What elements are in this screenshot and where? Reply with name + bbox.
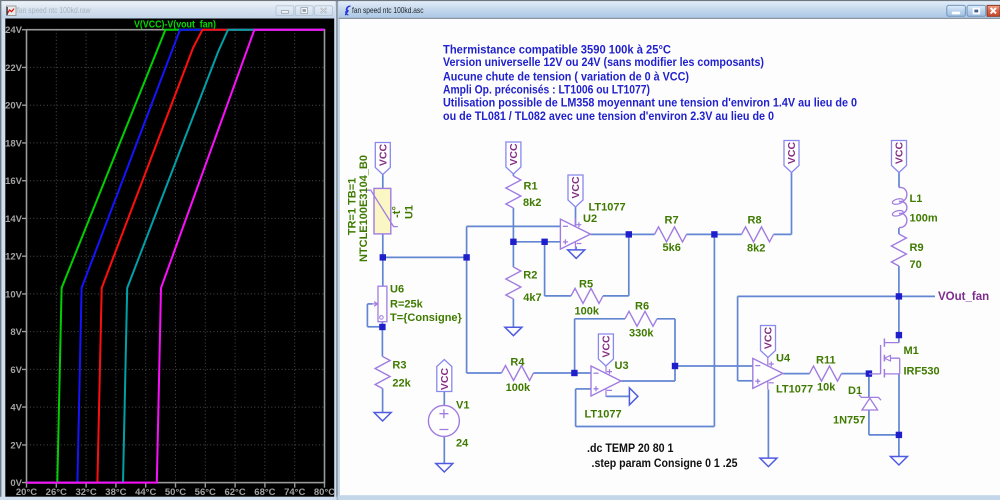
net label VOut_fan — [938, 291, 989, 303]
svg-text:70: 70 — [910, 259, 922, 271]
VCC flag above U3 — [598, 334, 613, 366]
wire R1 bottom to node — [512, 208, 514, 242]
svg-text:8V: 8V — [10, 327, 22, 338]
inductor L1 100m — [892, 187, 907, 227]
wire node up to R6 — [574, 319, 576, 373]
svg-text:20°C: 20°C — [16, 487, 37, 498]
resistor R7 5k6 — [655, 227, 687, 242]
V1 labels — [456, 400, 469, 450]
wire VOut node to M1 drain — [898, 296, 900, 342]
junction U3 inv node — [571, 370, 577, 376]
R9 labels — [910, 242, 924, 271]
svg-text:10V: 10V — [5, 289, 23, 300]
junction R7-R8 — [711, 231, 717, 237]
svg-text:22V: 22V — [5, 63, 23, 74]
VCC flag above U4 — [761, 326, 776, 358]
ground below U4 — [760, 458, 777, 467]
svg-text:8k2: 8k2 — [523, 197, 541, 209]
MOSFET M1 IRF530 — [869, 339, 900, 378]
R6 labels — [629, 301, 654, 340]
svg-text:TR=1 TB=1: TR=1 TB=1 — [347, 178, 359, 235]
wire R6 right — [657, 318, 675, 320]
wire VCC to U1 top — [382, 175, 384, 189]
R11 labels — [816, 355, 836, 394]
svg-text:26°C: 26°C — [46, 487, 67, 498]
R1 labels — [523, 181, 541, 210]
voltage source V1 24 — [428, 405, 459, 436]
wire VCC to L1 — [898, 173, 900, 188]
svg-text:100k: 100k — [506, 382, 531, 394]
svg-text:VCC: VCC — [439, 367, 451, 390]
potentiometer U6 — [372, 286, 387, 322]
svg-text:R6: R6 — [635, 301, 649, 313]
svg-text:4k7: 4k7 — [523, 292, 541, 304]
resistor R6 330k — [625, 311, 657, 326]
wire D1 anode down — [868, 410, 870, 435]
svg-text:VCC: VCC — [377, 143, 389, 166]
svg-text:VCC: VCC — [508, 143, 520, 166]
wire VCC to U2 vplus — [575, 207, 577, 226]
svg-text:-t°: -t° — [391, 206, 403, 218]
junction U6 bottom — [379, 324, 385, 330]
svg-text:Ampli Op. préconisés : LT1006: Ampli Op. préconisés : LT1006 ou LT1077) — [443, 84, 650, 97]
wire R4 left — [467, 372, 502, 374]
wire node down long — [713, 234, 715, 426]
svg-text:38°C: 38°C — [105, 487, 126, 498]
wire VOut feedback horizontal — [738, 295, 899, 297]
wire to U3 noninv input — [576, 388, 591, 390]
svg-text:44°C: 44°C — [135, 487, 156, 498]
svg-text:18V: 18V — [5, 138, 23, 149]
wire vertical to U2 inv corner — [466, 226, 468, 373]
wire node to R8 — [714, 233, 741, 235]
cyan trace V(VCC)-V(vout_fan) — [27, 30, 325, 483]
svg-text:LT1077: LT1077 — [585, 409, 622, 421]
junction U1-U6 node — [380, 254, 386, 260]
wire bottom feedback horizontal — [576, 426, 715, 428]
wire U4 noninv up — [737, 296, 739, 380]
wire U6 wiper left — [367, 303, 372, 305]
svg-text:R11: R11 — [816, 355, 836, 367]
svg-text:5k6: 5k6 — [663, 242, 681, 254]
wire R8 right — [774, 233, 792, 235]
svg-text:74°C: 74°C — [284, 487, 305, 498]
comment text block (blue) — [443, 43, 857, 123]
resistor R3 22k — [375, 357, 390, 389]
left title text — [17, 5, 91, 15]
wire U6 wiper down — [366, 304, 368, 327]
resistor R4 100k — [502, 366, 534, 381]
junction R5 tap — [541, 239, 547, 245]
wire U6 bottom junction — [381, 322, 383, 327]
plot axes frame — [27, 30, 325, 483]
svg-text:24: 24 — [456, 438, 469, 450]
wire D1 to source node — [869, 434, 899, 436]
junction VOut_fan node — [896, 293, 902, 299]
ground below R2 — [505, 327, 522, 336]
VCC flag above R8 — [784, 141, 799, 173]
svg-text:V1: V1 — [456, 400, 469, 412]
ground below V1 — [436, 464, 453, 473]
U6 labels — [390, 284, 463, 325]
svg-text:100k: 100k — [575, 306, 600, 318]
svg-text:VCC: VCC — [601, 335, 613, 358]
R2 labels — [523, 270, 541, 305]
wire R4 right to node — [534, 372, 575, 374]
wire R9 bottom — [898, 266, 900, 296]
wire R8 up to VCC — [791, 173, 793, 235]
svg-text:R4: R4 — [510, 357, 525, 369]
wire feedback up to U3 plus — [575, 389, 577, 427]
svg-text:NTCLE100E3104_B0: NTCLE100E3104_B0 — [358, 155, 370, 262]
wire U2 output to R7 — [591, 233, 655, 235]
wire R5 up to U2 out — [628, 234, 630, 296]
ground below U2 — [568, 250, 585, 259]
svg-text:32°C: 32°C — [75, 487, 96, 498]
svg-text:6V: 6V — [10, 365, 22, 376]
svg-text:R3: R3 — [392, 360, 406, 372]
U2 labels — [583, 202, 626, 226]
svg-text:Thermistance compatible 3590 1: Thermistance compatible 3590 100k à 25°C — [443, 43, 672, 56]
wire U6 wiper to bottom node — [367, 326, 382, 328]
svg-text:fan speed ntc 100kd.raw: fan speed ntc 100kd.raw — [17, 5, 91, 15]
svg-text:330k: 330k — [629, 328, 654, 340]
svg-text:22k: 22k — [392, 378, 411, 390]
wire M1 source down — [898, 374, 900, 435]
right window buttons: minimize — [947, 5, 966, 16]
svg-text:50°C: 50°C — [165, 487, 186, 498]
M1 labels — [904, 345, 940, 378]
right title bar icon (schematic) — [345, 6, 350, 15]
wire node to node2 horizontal — [383, 256, 467, 258]
svg-text:16V: 16V — [5, 176, 23, 187]
red trace V(VCC)-V(vout_fan) — [27, 30, 325, 483]
right window buttons: close — [987, 5, 1000, 16]
svg-text:U1: U1 — [404, 205, 416, 219]
wire to R6 left — [575, 318, 625, 320]
magenta trace V(VCC)-V(vout_fan) — [27, 30, 325, 483]
svg-text:R2: R2 — [523, 270, 537, 282]
resistor R11 10k — [810, 366, 842, 381]
wire U4 noninv input — [738, 380, 753, 382]
svg-text:10k: 10k — [817, 382, 836, 394]
wire R3 bottom to ground — [382, 389, 384, 413]
junction node2 — [463, 254, 469, 260]
svg-text:R1: R1 — [524, 181, 538, 193]
svg-text:D1: D1 — [848, 385, 862, 397]
svg-text:Aucune chute de tension ( vari: Aucune chute de tension ( variation de 0… — [443, 70, 689, 83]
wire node to R3 top — [381, 327, 383, 357]
wire U4 vminus to ground — [767, 390, 769, 459]
D1 labels — [833, 385, 865, 427]
svg-text:4V: 4V — [10, 403, 22, 414]
svg-text:80°C: 80°C — [314, 487, 335, 498]
thermistor U1 NTCLE100E3104_B0 — [367, 188, 398, 234]
R5 labels — [575, 279, 600, 318]
svg-text:8k2: 8k2 — [747, 243, 765, 255]
svg-text:R7: R7 — [665, 215, 679, 227]
wire U2 vminus to ground — [575, 247, 577, 250]
wire out node to U4 inv input — [675, 365, 753, 367]
wire U1 bottom to node — [382, 234, 384, 258]
wire U3 vminus to ground arrow — [606, 395, 629, 397]
svg-text:R9: R9 — [910, 242, 924, 254]
ground right of U3 vminus — [629, 388, 638, 405]
svg-text:VCC: VCC — [786, 141, 798, 164]
svg-text:62°C: 62°C — [224, 487, 245, 498]
svg-text:fan speed ntc 100kd.asc: fan speed ntc 100kd.asc — [352, 5, 424, 15]
svg-text:Utilisation possible de LM358: Utilisation possible de LM358 moyennant … — [443, 97, 857, 110]
wire L1 to R9 — [898, 228, 900, 234]
svg-text:LT1077: LT1077 — [589, 202, 626, 214]
R3 labels — [392, 360, 411, 390]
blue trace V(VCC)-V(vout_fan) — [27, 30, 325, 483]
svg-text:.dc TEMP 20 80 1: .dc TEMP 20 80 1 — [587, 443, 674, 455]
svg-text:12V: 12V — [5, 252, 23, 263]
U3 labels — [585, 360, 629, 421]
wire to R5 left — [545, 295, 571, 297]
wire to U2 inverting input — [467, 225, 561, 227]
svg-text:R5: R5 — [579, 279, 593, 291]
wire U3 output — [621, 380, 675, 382]
wire gate node to D1 — [868, 374, 870, 398]
svg-text:1N757: 1N757 — [833, 415, 865, 427]
junction U3 out node — [672, 363, 678, 369]
left window buttons (min, restore, close) — [276, 6, 294, 16]
VCC flag above U1 — [375, 143, 390, 175]
wire source node to ground — [898, 435, 900, 457]
svg-text:LT1077: LT1077 — [776, 384, 813, 396]
ground below M1 source — [890, 457, 907, 466]
svg-text:M1: M1 — [904, 345, 919, 357]
schematic white canvas — [340, 19, 1000, 495]
wire VCC to R1 — [512, 174, 514, 176]
spice directive .step — [592, 458, 739, 470]
resistor R1 8k2 — [506, 176, 521, 208]
ground below R3 — [374, 413, 391, 422]
wire R2 bottom to ground — [512, 299, 514, 327]
op-amp U3 LT1077 — [591, 365, 621, 397]
wire V1 bottom to ground — [443, 436, 445, 463]
wire node to U2 noninv input — [513, 241, 560, 243]
op-amp U4 LT1077 — [753, 357, 783, 389]
svg-text:R=25k: R=25k — [390, 299, 424, 311]
wire R6 down to out node — [674, 319, 676, 366]
svg-text:VCC: VCC — [763, 326, 775, 349]
L1 labels — [910, 193, 938, 225]
R7 labels — [663, 215, 681, 255]
junction M1 gate node — [866, 370, 872, 376]
y axis ticks and labels — [5, 25, 26, 489]
R4 labels — [506, 357, 531, 395]
svg-text:.step param Consigne 0 1 .25: .step param Consigne 0 1 .25 — [592, 458, 739, 470]
wire R5 node vertical — [544, 242, 546, 296]
svg-text:VCC: VCC — [570, 176, 582, 199]
right window buttons: maximize — [967, 5, 986, 16]
plot title V(VCC)-V(vout_fan) — [134, 20, 216, 31]
waveform plot black background — [5, 19, 334, 497]
x axis ticks and labels — [16, 483, 335, 498]
svg-text:VCC: VCC — [894, 141, 906, 164]
wire node to U3 inv input — [574, 372, 591, 374]
svg-text:U3: U3 — [615, 360, 629, 372]
wire node to U6 top — [382, 257, 384, 286]
left title bar icon (waveform) — [7, 6, 17, 16]
resistor R8 8k2 — [742, 227, 774, 242]
wire node to R2 top — [512, 242, 514, 267]
wire R11 to gate node — [842, 373, 869, 375]
svg-text:14V: 14V — [5, 214, 23, 225]
left window title bar — [1, 1, 335, 18]
wire R5 right — [603, 295, 629, 297]
VCC flag above R1 — [506, 142, 521, 174]
plot grid dotted lines — [27, 30, 325, 483]
svg-text:R8: R8 — [748, 215, 762, 227]
svg-text:U2: U2 — [583, 213, 597, 225]
junction U2 output — [626, 231, 632, 237]
svg-text:100m: 100m — [910, 213, 938, 225]
svg-text:56°C: 56°C — [195, 487, 216, 498]
VCC flag above L1 — [892, 141, 907, 173]
right window (schematic) frame — [337, 0, 1000, 500]
spice directive .dc — [587, 443, 674, 455]
resistor R9 70 — [891, 234, 906, 266]
R8 labels — [747, 215, 765, 255]
wire VOut label stub — [899, 295, 935, 297]
svg-text:Version universelle 12V ou 24V: Version universelle 12V ou 24V (sans mod… — [443, 56, 764, 69]
VCC flag above U2 — [568, 175, 583, 207]
right window title bar (active) — [339, 1, 1000, 19]
U4 labels — [776, 353, 813, 396]
green trace V(VCC)-V(vout_fan) — [27, 30, 325, 483]
svg-text:T={Consigne}: T={Consigne} — [390, 312, 463, 324]
svg-text:U4: U4 — [776, 353, 791, 365]
zener diode D1 1N757 — [859, 395, 881, 410]
svg-text:20V: 20V — [5, 101, 23, 112]
wire U3 output up — [674, 366, 676, 381]
svg-text:ou de TL081 / TL082 avec une t: ou de TL081 / TL082 avec une tension d'e… — [443, 110, 774, 123]
svg-text:U6: U6 — [390, 284, 404, 296]
VCC flag above V1 — [437, 360, 452, 392]
wire R7 to node — [687, 233, 715, 235]
svg-text:68°C: 68°C — [254, 487, 275, 498]
resistor R2 4k7 — [506, 267, 521, 299]
op-amp U2 LT1077 — [560, 218, 590, 250]
svg-text:2V: 2V — [10, 440, 22, 451]
U1 labels — [347, 155, 416, 262]
wire U4 output to R11 — [783, 373, 809, 375]
svg-text:L1: L1 — [910, 193, 923, 205]
wire VCC to V1 top — [443, 392, 445, 406]
junction M1 source node — [896, 432, 902, 438]
right title text — [352, 5, 424, 15]
svg-text:24V: 24V — [5, 25, 23, 36]
svg-text:IRF530: IRF530 — [904, 366, 940, 378]
junction M1 drain — [896, 332, 902, 338]
junction R1-R2 divider — [510, 239, 516, 245]
resistor R5 100k — [571, 288, 603, 303]
svg-text:VOut_fan: VOut_fan — [938, 291, 989, 303]
